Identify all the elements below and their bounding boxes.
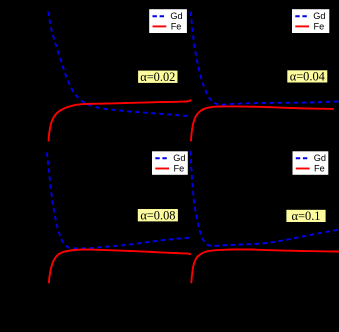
label alpha=0.02 xyxy=(138,70,177,84)
svg-text:α=0.08: α=0.08 xyxy=(140,208,175,222)
svg-text:Gd: Gd xyxy=(173,153,185,163)
legend top-left xyxy=(149,9,187,33)
subplot alpha=0.08 : curve Gd (blue dashed) xyxy=(47,153,191,249)
subplot alpha=0.02 : curve Gd (blue dashed) xyxy=(48,12,191,117)
svg-text:Gd: Gd xyxy=(170,11,182,21)
subplot alpha=0.04 : curve Fe (red solid) xyxy=(191,106,334,141)
svg-text:Fe: Fe xyxy=(314,21,325,31)
subplot alpha=0.04 : curve Gd (blue dashed) xyxy=(191,12,339,105)
svg-text:α=0.02: α=0.02 xyxy=(140,70,175,84)
subplot alpha=0.1 : curve Fe (red solid) xyxy=(191,249,339,283)
label alpha=0.04 xyxy=(287,69,327,83)
label alpha=0.1 xyxy=(286,209,325,223)
svg-text:Gd: Gd xyxy=(313,11,325,21)
svg-text:Gd: Gd xyxy=(314,153,326,163)
subplot alpha=0.02 : curve Fe (red solid) xyxy=(49,100,192,142)
legend bottom-left xyxy=(152,151,188,175)
svg-text:α=0.1: α=0.1 xyxy=(292,209,321,223)
subplot alpha=0.08 : curve Fe (red solid) xyxy=(49,250,191,284)
subplot alpha=0.1 : curve Gd (blue dashed) xyxy=(191,151,339,246)
label alpha=0.08 xyxy=(138,208,178,222)
legend bottom-right xyxy=(293,151,329,175)
svg-text:Fe: Fe xyxy=(174,163,185,173)
legend top-right xyxy=(292,9,329,33)
svg-text:Fe: Fe xyxy=(171,21,182,31)
svg-text:α=0.04: α=0.04 xyxy=(290,69,325,83)
svg-text:Fe: Fe xyxy=(314,163,325,173)
